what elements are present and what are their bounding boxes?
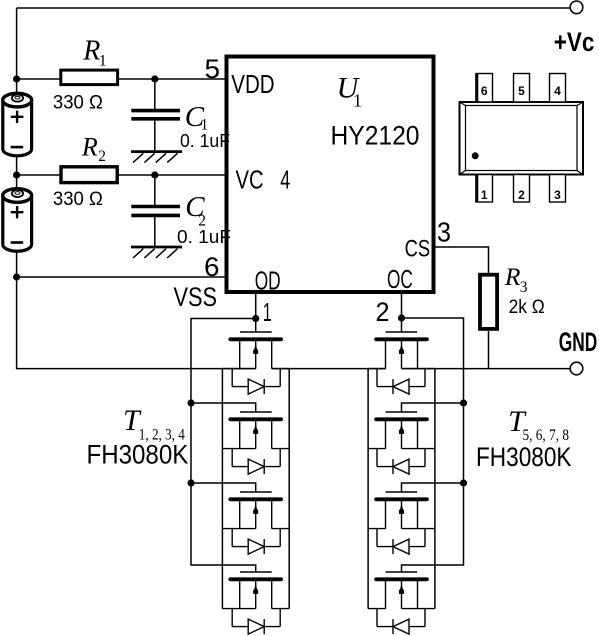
svg-text:2: 2 [198,212,206,229]
svg-text:1: 1 [481,188,488,202]
svg-text:FH3080K: FH3080K [87,440,189,470]
svg-text:R: R [82,36,100,67]
svg-text:OD: OD [255,265,281,295]
svg-text:330 Ω: 330 Ω [53,188,103,210]
svg-text:1: 1 [201,117,209,134]
svg-text:GND: GND [559,327,598,357]
svg-text:2: 2 [376,297,390,327]
svg-text:6: 6 [204,252,220,282]
svg-text:R: R [504,262,521,291]
svg-text:3: 3 [554,188,561,202]
svg-text:2: 2 [98,148,106,165]
svg-text:1, 2, 3, 4: 1, 2, 3, 4 [139,427,185,444]
svg-text:VSS: VSS [174,282,218,312]
svg-text:FH3080K: FH3080K [476,442,572,472]
svg-text:5: 5 [518,84,525,98]
svg-text:+Vc: +Vc [554,27,595,57]
svg-text:OC: OC [387,264,413,294]
svg-text:2k Ω: 2k Ω [509,297,545,318]
svg-text:VDD: VDD [231,71,274,99]
svg-text:3: 3 [437,217,451,248]
svg-text:1: 1 [263,297,272,327]
svg-text:3: 3 [520,279,528,296]
svg-text:5, 6, 7, 8: 5, 6, 7, 8 [523,427,570,444]
svg-text:HY2120: HY2120 [331,120,420,150]
svg-text:4: 4 [280,166,290,194]
svg-text:5: 5 [205,54,221,84]
svg-text:1: 1 [353,91,362,111]
svg-text:VC: VC [236,167,264,195]
svg-text:R: R [81,133,98,162]
svg-text:4: 4 [554,84,561,98]
svg-text:CS: CS [405,236,431,263]
svg-text:1: 1 [99,53,107,70]
svg-text:6: 6 [481,84,488,98]
svg-text:330 Ω: 330 Ω [53,91,103,113]
svg-text:2: 2 [518,188,525,202]
